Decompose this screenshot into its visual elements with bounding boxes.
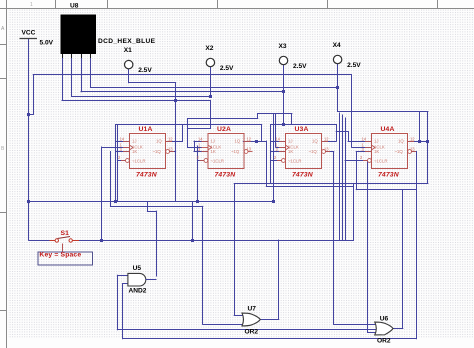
svg-text:DCD_HEX_BLUE: DCD_HEX_BLUE [98,38,156,45]
or-gate U6 OR2 [375,316,393,345]
wire U1A Q-bar run [111,152,203,325]
wire riser to OR U6 bottom from U4A clear [368,161,376,333]
and-gate U5 AND2 [128,265,156,295]
wire U1A clock from S1 [102,147,130,240]
wire display pin 1 net [62,56,211,148]
svg-text:1J: 1J [374,139,379,144]
svg-text:U7: U7 [248,306,257,313]
svg-text:12: 12 [168,136,173,141]
svg-text:~1CLR: ~1CLR [211,158,225,163]
svg-text:U1A: U1A [139,126,153,133]
wire Q1 run to U3A [188,114,292,125]
wire probe X4 stub [234,64,428,184]
wire display pin 4 net [91,56,338,88]
svg-text:U8: U8 [70,3,79,10]
svg-text:12: 12 [324,136,329,141]
junction bus left [27,200,30,203]
svg-text:1: 1 [30,2,33,8]
junction X3 at pin3 line [282,90,285,93]
svg-text:7473N: 7473N [136,172,158,179]
svg-text:VCC: VCC [22,30,36,37]
svg-text:U4A: U4A [381,126,395,133]
wire U4A Q out [408,112,428,142]
wire OR U7 output [259,240,279,320]
wire S1 key row net [29,184,354,241]
wire U2A Q drop [243,141,353,187]
svg-text:U3A: U3A [295,126,309,133]
power VCC 5.0V [20,30,54,47]
svg-text:14: 14 [120,136,125,141]
svg-text:AND2: AND2 [129,288,147,295]
svg-text:~1Q: ~1Q [309,149,318,154]
wire mid riser [192,202,194,240]
svg-text:A: A [1,26,5,32]
junction bus U1A tie [114,200,117,203]
svg-text:Key = Space: Key = Space [39,252,81,259]
junction X2 at pin2 line [209,95,212,98]
wire U2A feedback loop top [261,125,263,142]
probe X2 2.5V [205,45,234,72]
svg-text:2.5V: 2.5V [138,67,152,74]
junction S1 row mid [191,239,194,242]
wire U1A clear tie [118,125,127,202]
svg-text:X1: X1 [124,47,132,54]
svg-text:2.5V: 2.5V [220,65,234,72]
svg-text:OR2: OR2 [245,329,259,336]
wire U3A J/K tie and clear [271,125,286,184]
svg-text:~1Q: ~1Q [395,149,404,154]
junction U2A Q node [255,140,258,143]
svg-text:1Q: 1Q [312,139,318,144]
svg-text:13: 13 [324,146,329,151]
wire U4A Q-bar drop [412,152,417,339]
svg-text:U6: U6 [380,316,389,323]
svg-text:7473N: 7473N [215,172,237,179]
wire stage3 aux risers [274,114,346,241]
wire display pin 3 net [81,56,284,92]
wire aux riser [339,113,341,240]
svg-text:X4: X4 [333,42,341,49]
flip-flop U4A 7473N [360,126,416,179]
svg-text:13: 13 [168,146,173,151]
svg-text:12: 12 [247,136,252,141]
svg-text:~1Q: ~1Q [231,149,240,154]
junction S1 row at clock riser [100,239,103,242]
svg-text:X3: X3 [279,43,287,50]
svg-text:1J: 1J [211,139,216,144]
junction U4A Q riser [418,140,421,143]
svg-text:14: 14 [276,136,281,141]
svg-text:7473N: 7473N [292,172,314,179]
svg-text:14: 14 [362,136,367,141]
wire bottom bus B from U4A Q-bar [123,284,417,339]
svg-text:1J: 1J [132,139,137,144]
flip-flop U1A 7473N [118,126,174,179]
svg-text:OR2: OR2 [377,338,391,345]
junction X1 at pin1 line [174,99,177,102]
junction U3A loop at X3 [282,123,285,126]
svg-text:14: 14 [198,136,203,141]
svg-text:X2: X2 [205,45,213,52]
wire OR U6 output [392,328,403,330]
svg-text:~1Q: ~1Q [153,149,162,154]
flip-flop U3A 7473N [274,126,330,179]
wire U3A clock feed [276,114,286,148]
wire OR U7 top input [234,184,243,316]
wire U2A clear tie [198,146,205,202]
wire U4A K feed [356,152,371,190]
probe X4 2.5V [333,42,362,69]
wire probe X3 stub [283,65,285,125]
svg-text:13: 13 [247,146,252,151]
wire U2A J/K tie [194,141,208,152]
svg-text:5.0V: 5.0V [40,40,54,47]
svg-text:1Q: 1Q [235,139,241,144]
svg-text:12: 12 [410,136,415,141]
svg-text:1J: 1J [288,139,293,144]
display U8 DCD_HEX_BLUE [61,3,156,59]
wire VCC net [29,39,352,241]
junction U4A Q at X4 drop [426,140,429,143]
svg-text:~1CLR: ~1CLR [374,158,388,163]
svg-text:U5: U5 [133,265,142,272]
svg-text:S1: S1 [61,230,70,237]
svg-text:1Q: 1Q [398,139,404,144]
probe X3 2.5V [279,43,308,70]
junction VCC branch [27,113,30,116]
wire U3A feedback loop top [271,125,337,142]
svg-text:B: B [1,146,5,152]
svg-text:1K: 1K [211,149,216,154]
svg-text:2.5V: 2.5V [347,62,361,69]
wire U4A clock feed from OR U6 [356,190,416,329]
wire probe X2 stub [210,67,212,96]
svg-text:1Q: 1Q [156,139,162,144]
wire U1A feedback loop top [116,125,262,142]
svg-text:1K: 1K [288,149,293,154]
svg-text:1K: 1K [374,149,379,154]
wire probe X1 stub [129,69,176,202]
svg-text:7473N: 7473N [378,172,400,179]
junction U2A clear at bus [196,200,199,203]
svg-text:~1CLR: ~1CLR [132,158,146,163]
wire display pin 2 net [72,56,211,97]
flip-flop U2A 7473N [197,126,253,179]
svg-text:1K: 1K [132,149,137,154]
svg-text:2.5V: 2.5V [293,63,307,70]
wire bottom bus A to AND input [117,275,380,330]
junction X4 at pin4 line [336,86,339,89]
probe X1 2.5V [124,47,153,74]
switch S1 Key = Space [38,230,93,265]
svg-text:U2A: U2A [217,126,231,133]
or-gate U7 OR2 [242,306,260,336]
junction bus U3A tie [272,200,275,203]
wire U4A clear feed [345,160,367,162]
wire U4A clock entry [352,147,372,149]
wire VCC J-K bus [29,201,274,203]
wire OR U7 bottom input [203,324,243,326]
svg-text:~1CLR: ~1CLR [288,158,302,163]
wire Q3 run to U4A [336,132,371,142]
wire U1A J/K tie [116,125,130,202]
wire U3A Q-bar drop to OR U6 top [325,152,376,325]
svg-text:13: 13 [410,146,415,151]
wire AND output riser [147,202,156,276]
wire U4A clock from VCC run [351,75,353,148]
